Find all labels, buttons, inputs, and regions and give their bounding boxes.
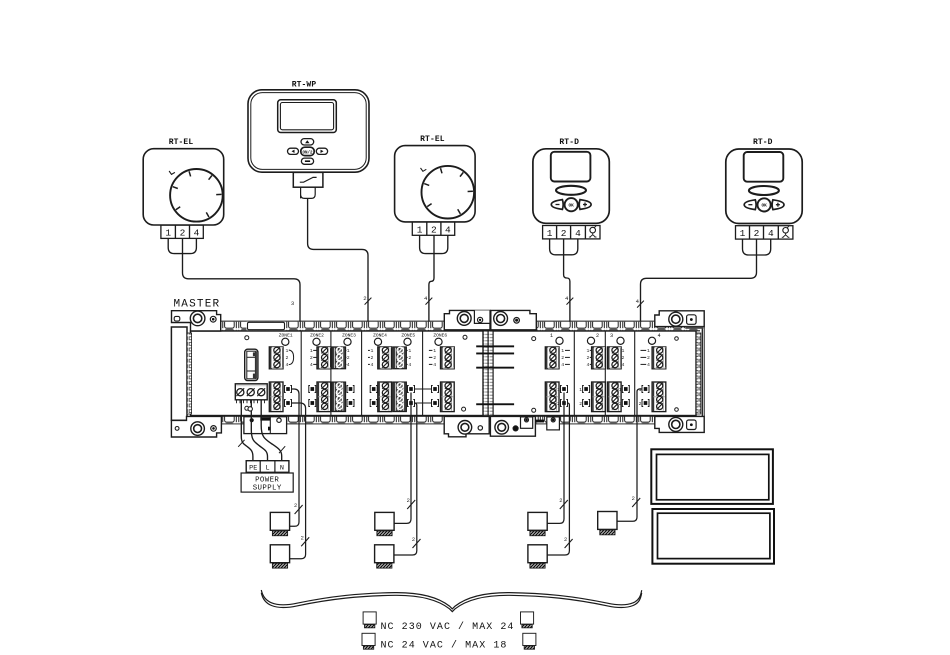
master left end bar	[171, 327, 191, 420]
svg-text:1: 1	[547, 228, 553, 239]
terminal block ZONE3 lower (dark)	[332, 382, 346, 412]
svg-text:RT-WP: RT-WP	[292, 81, 317, 90]
ZONE6 output tabs	[432, 386, 439, 407]
mounting plate top-left with screw	[172, 311, 221, 331]
wire RT-D2 to slave zone 4	[641, 239, 757, 364]
wire RT-D2 terminals U-link	[743, 239, 771, 255]
svg-text:2: 2	[371, 355, 374, 361]
svg-text:4: 4	[433, 362, 436, 368]
svg-text:RT-EL: RT-EL	[169, 138, 194, 147]
slave4 pin numbers	[641, 348, 651, 368]
DIN rail top	[218, 321, 700, 331]
svg-text:1: 1	[587, 348, 590, 354]
ZONE3 pin numbers	[346, 348, 350, 368]
svg-text:4: 4	[561, 362, 564, 368]
wire RT-EL1 terminals U-link	[161, 239, 197, 254]
svg-text:4: 4	[408, 362, 411, 368]
small pcb hole circles	[245, 335, 679, 412]
svg-text:2: 2	[619, 401, 622, 407]
svg-text:4: 4	[347, 362, 350, 368]
svg-text:4: 4	[622, 362, 625, 368]
svg-text:POWER: POWER	[255, 477, 279, 485]
ZONE2 output tabs	[309, 386, 316, 407]
mounting plate right-end bottom with screw	[655, 416, 704, 432]
terminal block ZONE1 upper	[269, 347, 283, 369]
svg-text:2: 2	[363, 295, 366, 302]
actuator M2	[270, 545, 289, 568]
zone section dividers (slave)	[574, 331, 634, 416]
note box 2	[652, 509, 774, 564]
mounting plate mid-left top with screw	[444, 310, 490, 329]
actuator M1	[270, 512, 289, 535]
ZONE5 pin numbers	[406, 348, 411, 368]
terminal block slave2 lower	[592, 382, 606, 412]
thermostat RT-D 1	[533, 138, 609, 239]
svg-text:4: 4	[575, 228, 581, 239]
terminal block ZONE1 lower	[269, 382, 283, 412]
actuator M5	[528, 512, 547, 535]
svg-text:2: 2	[559, 498, 562, 504]
svg-text:2: 2	[310, 355, 313, 361]
legend line 1: NC 230 VAC / MAX 24	[363, 612, 533, 633]
wire zone1 tab2 to actuator M2	[290, 403, 306, 559]
legend line 2: NC 24 VAC / MAX 18	[362, 633, 536, 651]
zone indicator circles slave	[556, 337, 656, 344]
slave2 output tabs	[579, 386, 589, 408]
svg-text:2: 2	[557, 401, 560, 407]
mounting plate bottom-left with screw	[171, 416, 221, 437]
svg-text:4: 4	[768, 228, 774, 239]
svg-text:ZONE3: ZONE3	[342, 333, 356, 339]
zone section dividers (master)	[301, 331, 422, 416]
DIN rail bottom	[218, 416, 700, 423]
master module board	[191, 331, 484, 416]
wire RT-EL1 to ZONE1	[183, 239, 301, 358]
RT-WP base connector with relay switch	[293, 172, 323, 198]
slash 2-wire M7	[632, 496, 641, 507]
svg-text:1: 1	[371, 348, 374, 354]
terminal block slave3 lower	[607, 382, 621, 412]
terminal block slave2 upper	[592, 347, 606, 369]
ZONE1 pin numbers and link	[286, 348, 294, 368]
terminal block slave1 upper	[545, 347, 559, 369]
power wire PE	[241, 400, 253, 461]
wire slave4 tab1 to actuator M7	[617, 389, 642, 521]
ZONE2 pin numbers	[310, 348, 317, 368]
note box 1	[651, 449, 773, 504]
svg-text:1: 1	[622, 348, 625, 354]
svg-text:2: 2	[180, 228, 186, 239]
svg-text:2: 2	[632, 496, 635, 502]
svg-text:1: 1	[417, 224, 423, 235]
wire RT-EL2 terminals U-link	[420, 235, 448, 253]
svg-text:1: 1	[550, 333, 553, 339]
ZONE1 output tabs	[285, 386, 292, 407]
ZONE6 pin numbers	[429, 348, 436, 368]
link zone5 tab1 to zone6 tab1	[415, 388, 432, 390]
svg-text:2: 2	[431, 224, 437, 235]
slash 2-wire M2	[301, 535, 310, 546]
slash 2-wire M3	[407, 498, 416, 509]
terminal block ZONE6 lower	[441, 382, 455, 412]
svg-text:3: 3	[610, 333, 613, 339]
svg-text:1: 1	[408, 348, 411, 354]
terminal block slave4 lower	[652, 382, 666, 412]
bracket clips below mid-right plate	[521, 417, 560, 430]
svg-text:2: 2	[639, 401, 642, 407]
power wire L	[251, 400, 267, 461]
slave1 pin numbers	[561, 348, 570, 368]
svg-text:RT-D: RT-D	[559, 138, 579, 147]
svg-text:1: 1	[165, 228, 171, 239]
terminal block slave3 upper	[607, 347, 621, 369]
svg-text:2: 2	[301, 535, 304, 541]
terminal block ZONE4 upper	[378, 347, 392, 369]
slave3 output tabs	[619, 386, 629, 408]
svg-text:4: 4	[310, 362, 313, 368]
mounting plate right-end top with screw	[655, 311, 704, 329]
svg-text:NC 24 VAC / MAX 18: NC 24 VAC / MAX 18	[381, 640, 508, 652]
terminal block slave1 lower	[545, 382, 559, 412]
thermostat RT-EL 2	[395, 135, 476, 235]
terminal block ZONE6 upper	[441, 347, 455, 369]
svg-text:4: 4	[194, 228, 200, 239]
thermostat RT-D 2	[726, 138, 802, 239]
svg-text:2: 2	[754, 228, 760, 239]
svg-text:1: 1	[647, 348, 650, 354]
slave module board	[493, 331, 696, 416]
svg-text:4: 4	[647, 362, 650, 368]
grouping brace	[261, 590, 641, 612]
svg-text:2: 2	[412, 537, 415, 543]
slash 2-wire M6	[564, 537, 573, 548]
svg-text:2: 2	[622, 355, 625, 361]
RT-WP buttons	[288, 139, 328, 165]
slash 2-wire M5	[559, 498, 568, 509]
svg-text:1: 1	[579, 387, 582, 393]
svg-text:1: 1	[561, 348, 564, 354]
link zone5 tab2 to zone6 tab2	[415, 402, 432, 404]
ZONE3 output tabs	[347, 386, 354, 407]
svg-text:2: 2	[561, 355, 564, 361]
zone indicator circles master	[282, 338, 442, 345]
svg-text:1: 1	[639, 387, 642, 393]
svg-text:2: 2	[286, 355, 289, 361]
wire zone1 tab1 to actuator M1	[290, 389, 299, 526]
zone labels master	[279, 333, 448, 339]
power terminal block X0 (3 screws)	[235, 384, 267, 403]
wire RT-WP to ZONE4	[308, 198, 368, 364]
terminal block ZONE5 upper (dark)	[393, 347, 407, 369]
svg-text:2: 2	[647, 355, 650, 361]
svg-text:2: 2	[579, 401, 582, 407]
terminal block ZONE4 lower	[378, 382, 392, 412]
actuator M3	[375, 512, 394, 535]
wire RT-D1 terminals U-link	[550, 239, 578, 255]
svg-text:2: 2	[587, 355, 590, 361]
ZONE4 pin numbers	[368, 348, 374, 368]
svg-text:1: 1	[740, 228, 746, 239]
svg-text:ON/2: ON/2	[302, 150, 313, 155]
svg-text:2: 2	[564, 537, 567, 543]
svg-text:MASTER: MASTER	[174, 299, 221, 311]
svg-text:4: 4	[657, 333, 660, 339]
svg-text:4: 4	[371, 362, 374, 368]
wire RT-D1 to slave zone 1	[564, 239, 570, 365]
wire RT-EL2 to ZONE6	[429, 235, 434, 364]
POWER SUPPLY box	[241, 473, 293, 493]
RT-WP display	[278, 100, 337, 133]
svg-text:OK: OK	[761, 204, 767, 209]
svg-text:SUPPLY: SUPPLY	[253, 485, 282, 493]
actuator M6	[528, 545, 547, 568]
svg-text:4: 4	[286, 362, 289, 368]
PE L N terminal box	[246, 461, 289, 473]
svg-text:NC 230 VAC / MAX 24: NC 230 VAC / MAX 24	[381, 621, 515, 633]
slash 2-wire M4	[412, 537, 421, 548]
terminal block ZONE2 lower	[317, 382, 331, 412]
ZONE4 output tabs	[370, 386, 377, 407]
svg-text:3: 3	[291, 300, 294, 307]
thermostat RT-WP	[248, 81, 369, 173]
svg-text:ZONE5: ZONE5	[401, 333, 415, 339]
bracket below rail near power feed	[244, 417, 287, 434]
svg-text:1: 1	[286, 348, 289, 354]
svg-text:RT-D: RT-D	[753, 138, 773, 147]
svg-text:1: 1	[619, 387, 622, 393]
svg-text:ZONE6: ZONE6	[433, 333, 447, 339]
svg-text:PE: PE	[249, 464, 257, 472]
svg-text:2: 2	[433, 355, 436, 361]
svg-text:1: 1	[310, 348, 313, 354]
thermostat RT-EL 1	[143, 138, 224, 238]
terminal block ZONE5 lower (dark)	[393, 382, 407, 412]
module junction ribbon	[483, 331, 493, 416]
mounting plate mid-right bottom with screw	[490, 416, 535, 436]
slave3 pin numbers	[621, 348, 624, 368]
svg-text:2: 2	[347, 355, 350, 361]
fuse F1	[245, 349, 258, 380]
svg-text:1: 1	[433, 348, 436, 354]
terminal block ZONE2 upper	[317, 347, 331, 369]
terminal block slave4 upper	[652, 347, 666, 369]
ZONE5 output tabs	[408, 386, 415, 407]
svg-text:OK: OK	[569, 204, 575, 209]
svg-text:ZONE4: ZONE4	[373, 333, 387, 339]
svg-text:1: 1	[557, 387, 560, 393]
slave4 output tabs	[639, 386, 649, 408]
slave2 pin numbers	[587, 348, 592, 368]
slash 2-wire M1	[294, 503, 303, 514]
actuator M4	[375, 545, 394, 568]
svg-text:4: 4	[587, 362, 590, 368]
svg-text:RT-EL: RT-EL	[420, 135, 445, 144]
svg-text:2: 2	[407, 498, 410, 504]
zone number labels slave	[550, 333, 661, 339]
junction jumper bars	[476, 345, 514, 405]
actuator M7	[598, 512, 617, 535]
mounting plate mid-left bottom with screw	[444, 416, 489, 436]
svg-text:4: 4	[445, 224, 451, 235]
wire zone5 tab1 to actuator M3	[394, 393, 411, 524]
power wire N	[261, 400, 282, 461]
svg-text:1: 1	[347, 348, 350, 354]
svg-text:L: L	[265, 464, 269, 472]
mounting plate mid-right top with screw	[491, 310, 537, 329]
svg-text:2: 2	[408, 355, 411, 361]
terminal block ZONE3 upper (dark)	[332, 347, 346, 369]
svg-text:2: 2	[596, 333, 599, 339]
right end cap	[696, 327, 704, 417]
wire zone5 tab2 to actuator M4	[394, 403, 417, 555]
wire slave1 tab2 to actuator M6	[547, 403, 569, 555]
svg-text:2: 2	[561, 228, 567, 239]
svg-text:2: 2	[294, 503, 297, 509]
wire slave1 tab1 to actuator M5	[547, 393, 564, 524]
slave1 output tabs	[557, 386, 567, 408]
svg-text:N: N	[280, 464, 284, 472]
